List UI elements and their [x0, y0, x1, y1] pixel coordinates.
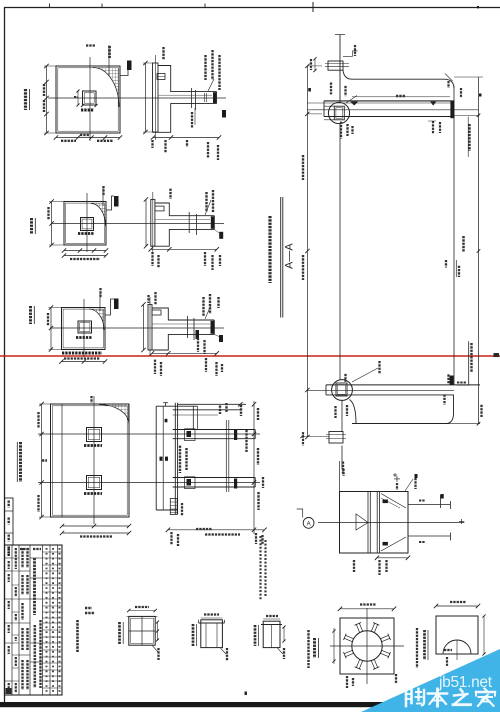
detail A left bottom text — [353, 560, 355, 572]
bottom right detail inner mark — [444, 649, 452, 651]
bottom right detail dim text mid — [446, 657, 448, 666]
detail A outer rect — [340, 492, 409, 554]
detail 2-2 note column — [307, 630, 309, 668]
foundation plan J-1 outer square — [56, 66, 120, 133]
plan J-1 column left mini dim — [77, 91, 79, 105]
bottom detail 3 right mini dim — [283, 627, 285, 641]
section 4 wall face double line — [174, 403, 176, 514]
bottom detail 3 inner vline — [271, 625, 273, 648]
A-A bottom column end texts — [342, 469, 344, 476]
detail 2-2 outer square — [340, 618, 394, 674]
plan J-4 lower column dim text — [84, 492, 102, 495]
A-A bottom right bracket texts — [443, 394, 445, 404]
A-A bottom circle leader text — [378, 361, 380, 374]
A-A elevation leader near red line — [468, 341, 470, 385]
A-A left wall vertical — [339, 124, 341, 380]
section 4 inter-beam dim texts — [179, 446, 181, 473]
section 4 bottom dim line — [168, 529, 265, 531]
section 4 wall bottom edge — [156, 509, 177, 511]
section 2 bottom dim texts — [151, 252, 153, 266]
A-A below-bottom-circle texts — [334, 406, 336, 418]
A-A bottom cross left dim — [302, 436, 329, 438]
watermark blue triangle — [361, 649, 500, 712]
detail A top-left leader text — [342, 462, 344, 475]
plan J-4 column lower inner — [88, 477, 99, 487]
section 1 label text col 1 — [204, 55, 206, 80]
plan J-4 inner rect — [52, 406, 127, 515]
A-A bottom node inner rect — [336, 383, 347, 396]
plan J-1 pile arc — [93, 68, 119, 108]
section 4 top far text — [240, 405, 242, 416]
A-A bottom column lower — [341, 446, 343, 470]
section 4 wall left inner line — [162, 406, 164, 510]
section 3 beam rebar line — [152, 323, 210, 325]
bottom detail 1 leader text — [157, 648, 159, 660]
section 4 right dim line — [253, 401, 255, 534]
title block revision strip — [5, 498, 14, 545]
section 4 beam 1 top — [173, 429, 256, 431]
title block horizontal lines col E — [43, 551, 63, 553]
A-A embed depth text right — [468, 124, 470, 151]
section 2 break ticks — [188, 212, 190, 233]
plan J-1 hatch region — [93, 68, 119, 108]
section 3 beam end — [213, 320, 215, 334]
red reference line — [0, 355, 500, 357]
A-A below-circle texts — [340, 122, 342, 139]
detail 2-2 label underline — [318, 638, 320, 658]
revision strip texts — [7, 501, 9, 508]
section 3 wall centerline — [149, 297, 151, 356]
detail A bottom anchor blob — [383, 542, 388, 546]
A-A bottom beam top line — [326, 384, 480, 386]
bottom right detail note column — [416, 628, 418, 668]
detail 2-2 radiating rebars — [380, 653, 388, 656]
A-A top node rect edge ext bottom — [324, 119, 334, 121]
bottom detail 2 inner vlines — [205, 623, 207, 648]
plan J-2 column inner — [82, 219, 92, 229]
bottom right detail top dim text — [450, 601, 466, 603]
detail A top-right leader — [405, 479, 413, 491]
top border small mark — [477, 6, 479, 8]
section 1 left dim ext — [143, 62, 153, 64]
A-A bottom column — [341, 400, 343, 432]
plan J-1 rebar flag outline — [121, 61, 132, 76]
A-A top chord right tick — [445, 74, 453, 82]
plan J-2 hatch region — [91, 204, 106, 227]
section 1 wall centerline — [154, 55, 156, 140]
A-A left dim mid tick — [307, 113, 322, 115]
bottom detail 2 label — [192, 624, 195, 646]
section 4 ladder leader text — [181, 503, 183, 516]
title block horizontal lines col C — [19, 570, 30, 572]
A-A top flag text — [354, 45, 356, 56]
foundation plan J-3 outer square — [62, 308, 106, 350]
plan J-2 column dim text — [78, 232, 94, 235]
label J-3 underline — [33, 306, 35, 324]
A-A span dim text 9300 — [396, 95, 406, 97]
A-A left dim text blob — [308, 88, 311, 92]
plan J-1 inner square — [58, 68, 118, 131]
detail A bottom dim line — [377, 557, 408, 559]
A-A bottom node circle — [332, 380, 353, 401]
A-A above-bottom-circle texts — [344, 374, 346, 382]
section 2 bottom dim line — [151, 248, 217, 250]
red line right mark — [494, 353, 500, 357]
bottom detail 1 outer rect — [129, 616, 155, 645]
A-A bottom node inner rect2 — [338, 385, 346, 395]
A-A elevation marker right — [431, 102, 436, 105]
svg-text:A: A — [307, 521, 311, 527]
A-A bottom-left flare curve — [350, 395, 454, 424]
title block project text — [33, 625, 36, 688]
plan J-1 left dim text — [43, 84, 45, 96]
section 2 wall rect — [151, 199, 155, 246]
label J-4 underline — [16, 442, 18, 482]
section 4 right dim texts — [257, 408, 259, 420]
section 2 top anchor rect — [155, 206, 164, 211]
A-A top beam bottom ext to dim — [454, 114, 480, 116]
detail A top-right text — [414, 478, 416, 489]
plan J-4 column square upper — [87, 428, 102, 442]
plan J-1 rebar blob — [127, 61, 132, 71]
label J-1 foundation title — [24, 89, 27, 110]
bottom detail 1 cross vline — [141, 616, 143, 645]
plan J-4 hatch region — [99, 405, 129, 425]
section 4 top beam line 2 — [173, 409, 242, 411]
section 1 beam end plate — [213, 92, 217, 103]
section 4 top dim tick — [238, 402, 242, 406]
plan J-1 left dimension line — [46, 66, 48, 133]
detail A inner double vline 1 — [367, 492, 369, 554]
section 3 wall rect — [148, 304, 152, 350]
plan J-3 column square — [78, 321, 92, 333]
section 3 mid dark mark — [196, 330, 200, 339]
plan J-3 column inner — [80, 323, 90, 332]
top border centerline tick — [312, 2, 314, 12]
plan J-1 / section 1 horizontal centerline — [48, 97, 226, 99]
watermark CJK glyphs 脚本之家 — [406, 689, 495, 707]
A-A top beam centerline — [307, 109, 478, 111]
section 4 wall mid tick — [165, 419, 168, 423]
section 4 ladder rungs — [170, 501, 177, 503]
company vertical note — [76, 620, 79, 652]
title block drawing number text — [39, 620, 41, 688]
section 2 left dim line — [145, 199, 147, 246]
title block col C texts — [21, 548, 23, 568]
section 2 leader blob — [219, 232, 223, 239]
svg-text:A—A: A—A — [284, 243, 296, 269]
plan J-2 rebar blob — [114, 196, 119, 207]
plan J-1 column square — [83, 91, 97, 105]
detail A top diagonal — [381, 494, 406, 509]
title block outer rect — [5, 545, 63, 695]
title block dense text cells right — [46, 548, 48, 693]
detail A inner double vline 2 — [376, 492, 378, 554]
section 4 beam 2 end — [254, 478, 256, 488]
plan J-4 column upper inner — [88, 429, 99, 439]
A-A top beam bottom line — [324, 116, 454, 118]
page number mark — [245, 692, 248, 696]
title block col A texts — [8, 548, 10, 556]
detail 2-2 top dim text — [360, 603, 376, 605]
plan J-3 hatch region — [89, 309, 105, 330]
plan J-1 bottom dimension line — [56, 137, 120, 139]
plan J-2 inner square — [66, 203, 105, 243]
callout circle A — [303, 518, 314, 529]
title block small bottom mark — [6, 688, 12, 694]
A-A right wall mid texts — [445, 260, 447, 268]
section 1 left dim line — [145, 63, 147, 132]
A-A bottom beam left cap — [325, 385, 327, 395]
plan J-4 bottom dim lines — [62, 525, 129, 527]
bottom detail 2 top dim text — [204, 613, 219, 615]
bottom detail 1 leader — [152, 645, 158, 652]
A-A bottom right dim tick text — [480, 405, 482, 418]
section 4 beam 2 bottom — [173, 486, 256, 488]
plan J-3 column dim text — [76, 336, 92, 339]
section 3 label text col 1 — [202, 297, 204, 316]
plan J-2 pile arc — [91, 204, 106, 227]
plan J-2 left dim line — [51, 202, 53, 246]
section 4 beam 1 bottom — [173, 438, 256, 440]
label J-4 foundation title — [19, 442, 22, 482]
section 3 leader to labels — [205, 305, 211, 319]
section 1 top anchor rect — [157, 74, 165, 80]
section 4 top beam line 3 — [173, 414, 218, 416]
section 4 beam 2 anchor rect — [185, 477, 196, 489]
plan J-3 bottom dim line 2 — [62, 361, 106, 363]
section 3 bottom dim line — [152, 352, 217, 354]
plan J-3 inner square — [63, 309, 103, 348]
notes column 2 — [264, 540, 266, 596]
section 2 beam rebar line — [155, 218, 210, 220]
plan J-4 left dim texts — [42, 459, 47, 462]
A-A left dim top tick — [307, 65, 322, 67]
bottom detail 3 top flange — [261, 624, 282, 626]
A-A left dim line — [306, 66, 308, 437]
detail 2-2 bottom leader text — [395, 674, 397, 684]
plan J-2 bottom dim text — [70, 258, 100, 260]
section 3 top texts — [154, 292, 156, 305]
detail A top anchor blob — [383, 500, 388, 504]
title block vertical grid lines — [11, 545, 13, 695]
detail A centerline end tick — [459, 521, 464, 523]
title block col B texts — [15, 548, 17, 569]
title block horizontal lines col A — [5, 557, 13, 559]
drawing frame top border — [4, 7, 500, 9]
section 2 body outline — [151, 203, 215, 246]
section 3 below-red texts — [154, 360, 156, 374]
section 4 wall left line — [155, 406, 157, 510]
title block horizontal lines col B — [12, 557, 19, 559]
plan J-3 vertical centerline — [83, 299, 85, 357]
plan J-4 lower horizontal centerline — [38, 482, 260, 484]
A-A bottom beam bottom line — [326, 394, 454, 396]
label J-2 foundation title — [30, 218, 33, 234]
bottom detail 3 outer rect — [263, 621, 280, 647]
bottom detail 1 top dim text — [135, 606, 149, 608]
A-A elevation marker left — [351, 102, 358, 105]
section 3 top anchor rect — [152, 310, 161, 315]
top border tick 1 — [49, 4, 51, 8]
section 1 beam end — [216, 92, 218, 104]
A-A title text column — [268, 216, 271, 283]
A-A top beam left cap — [323, 101, 325, 117]
plan J-4 pile arc — [99, 405, 129, 425]
bottom right detail top dim line — [436, 605, 478, 607]
detail A top small text — [396, 483, 398, 490]
plan J-3 / section 3 horizontal centerline — [50, 327, 224, 329]
section 4 mid anchor blob 1 — [234, 430, 237, 440]
foundation plan J-2 outer square — [64, 202, 106, 246]
A-A bottom cross inner lines — [326, 434, 346, 436]
A-A top circle leader diagonal — [346, 96, 357, 104]
plan J-1 top small text — [86, 44, 95, 46]
section 1 leader to labels — [208, 79, 214, 91]
plan J-1 column inner square — [84, 93, 94, 103]
A-A bottom chord right ext — [446, 423, 480, 425]
section 4 mid double verticals — [225, 420, 227, 492]
detail 2-2 pile circle — [352, 631, 382, 661]
bottom detail 1 cross hline — [129, 630, 155, 632]
plan J-1 bottom dim text — [61, 140, 76, 142]
section 1 mid marks — [204, 93, 206, 102]
section 2 leader to labels — [205, 200, 211, 215]
bottom detail 2 leader — [220, 648, 226, 654]
A-A right small text top — [460, 88, 462, 98]
section 4 bottom texts — [170, 532, 172, 545]
A-A top beam second line — [307, 102, 454, 104]
A-A top-left small texts — [330, 83, 332, 95]
bottom detail 1 right mini dim — [157, 622, 159, 640]
section 4 beam 1 anchor rect — [185, 429, 196, 441]
A-A embed depth leader — [467, 117, 469, 158]
A-A tiny cross mark 1 — [393, 474, 397, 476]
section 1 label text col 3 — [218, 55, 220, 90]
top border tick 3 — [204, 4, 206, 8]
section 4 wall step verticals — [192, 406, 194, 429]
section 2 beam end — [213, 216, 215, 230]
section 3 label text col 2 — [209, 294, 211, 314]
plan J-4 bottom dim text — [80, 535, 112, 537]
bottom right detail right dim — [483, 616, 485, 654]
A-A right wall vertical — [453, 86, 455, 385]
notes column 1 — [259, 536, 261, 600]
detail 2-2 left dim — [333, 628, 335, 664]
label J-1 underline — [29, 89, 31, 110]
A-A elevation small base text — [457, 382, 466, 384]
section 4 top beam line 1 — [178, 403, 246, 405]
section 2 beam end plate — [211, 216, 215, 229]
plan J-3 flag outline — [105, 299, 114, 315]
detail A bottom diagonal — [381, 537, 406, 551]
section 4 right extra texts — [245, 430, 247, 452]
section 1 bottom dim texts — [151, 140, 153, 148]
A-A top node inner rect2 — [336, 108, 343, 118]
detail A right flag — [440, 495, 442, 508]
section 3 beam end plate — [211, 321, 215, 334]
A-A bottom beam end plate — [450, 376, 454, 385]
section 3 leader blob — [219, 335, 223, 342]
section 3 body outline — [148, 308, 214, 350]
A-A left dim texts — [302, 155, 304, 180]
detail 2-2 horizontal centerline — [330, 645, 404, 647]
detail A centerline — [318, 522, 464, 524]
bottom detail 2 top dim line — [201, 617, 223, 619]
A-A top-left flare curve — [343, 70, 454, 88]
bottom right detail label — [423, 630, 426, 660]
plan J-3 leader text — [99, 288, 101, 298]
plan J-2 flag outline — [106, 196, 114, 210]
A-A texts below top beam near wall — [432, 121, 434, 134]
section 3 break ticks — [187, 316, 189, 338]
A-A right dim line — [478, 77, 480, 424]
plan J-2 bottom dim lines — [64, 250, 106, 252]
detail A right beam end ticks — [449, 501, 451, 509]
A-A bottom circle leader diagonal — [352, 368, 378, 382]
A-A top beam top line — [324, 100, 454, 102]
section 1 top text — [162, 47, 164, 60]
plan J-1 left dim extension lines — [44, 65, 56, 67]
A-A curve label text — [447, 81, 449, 88]
plan J-1 leader text — [108, 46, 111, 58]
A-A top cross inner lines — [325, 63, 349, 65]
bottom detail 1 top ext line — [127, 615, 158, 617]
plan J-4 vertical centerline — [93, 396, 95, 524]
A-A top beam end plate — [450, 101, 454, 118]
section 4 wall top edge — [156, 405, 197, 407]
plan J-1 column dim ticks — [81, 104, 84, 107]
plan J-4 top leader text — [90, 396, 92, 403]
section 1 leader blob — [222, 110, 226, 118]
plan J-1 column dim text — [81, 109, 94, 112]
A-A right mid span text — [462, 236, 465, 253]
section 2 top text — [169, 189, 171, 199]
callout circle A leader — [297, 509, 303, 518]
bottom detail 2 outer rect — [201, 620, 223, 648]
dim note mid-bottom — [196, 528, 212, 530]
plan J-3 bottom dim text bold — [62, 352, 102, 355]
section 3 label text col 3 — [217, 297, 219, 308]
bottom detail 2 top flange — [199, 622, 225, 624]
section 4 beam 1 end — [254, 430, 256, 439]
A-A right dim ext top — [454, 76, 483, 78]
detail A bottom texts — [378, 560, 380, 575]
section 4 wall top marks — [163, 402, 168, 404]
bottom right detail semicircle — [443, 640, 471, 654]
section 1 wall rect — [153, 63, 159, 132]
bottom detail 3 top dim line — [263, 618, 280, 620]
top border tick 2 — [101, 4, 103, 8]
detail A top diagonal 2 — [381, 498, 400, 508]
bottom detail 1 label — [118, 622, 121, 644]
plan J-2 leader line — [102, 188, 104, 206]
plan J-4 column square lower — [87, 476, 102, 490]
title block company name text — [33, 558, 36, 615]
A-A right wall mid tick — [455, 260, 457, 277]
A-A top node rect edge ext top — [324, 105, 334, 107]
section 1 beam rebar line — [158, 94, 212, 96]
section 1 label text col 2 — [211, 50, 213, 80]
section 4 mid anchor blob 2 — [234, 479, 237, 489]
plan J-4 internal vline — [61, 404, 63, 517]
plan J-2 vertical centerline — [86, 193, 88, 252]
A-A bottom cross rect — [329, 432, 343, 444]
A-A top node circle — [328, 102, 349, 123]
bottom detail 1 label underline — [122, 622, 124, 644]
bottom detail 3 label — [254, 625, 257, 646]
A-A top flag small mark — [335, 34, 345, 36]
